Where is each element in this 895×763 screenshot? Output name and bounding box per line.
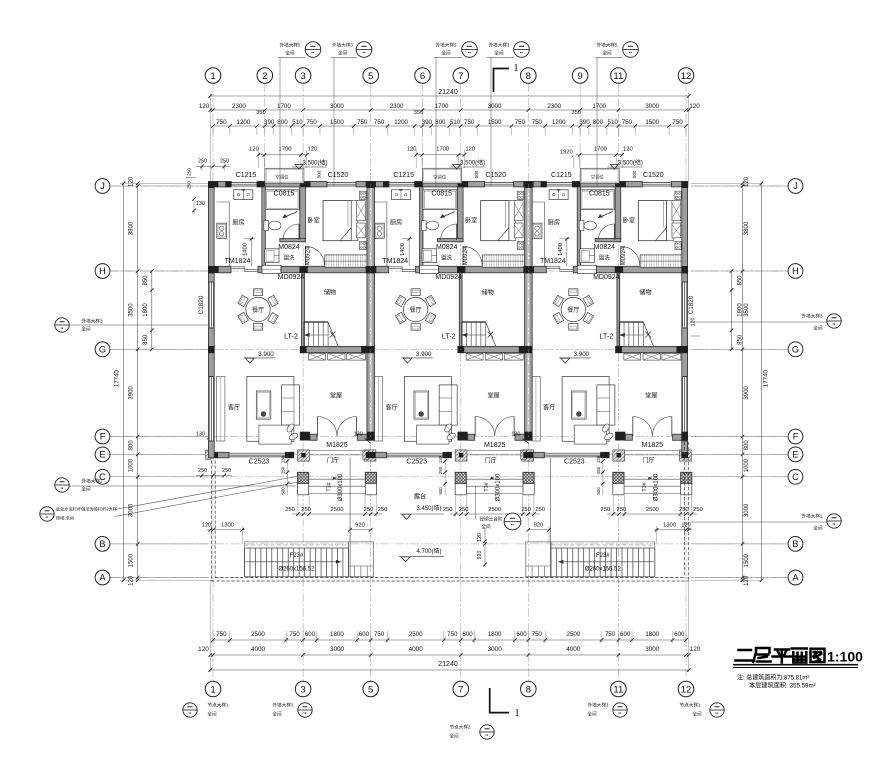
svg-text:盥洗: 盥洗 — [284, 254, 295, 262]
svg-text:外墙大样3: 外墙大样3 — [273, 702, 294, 709]
dims 250 250 below E wall — [196, 475, 232, 477]
svg-text:1: 1 — [210, 71, 215, 82]
porch column left — [298, 472, 309, 483]
svg-text:1000: 1000 — [129, 458, 135, 472]
balcony rail X-strip — [309, 353, 326, 360]
svg-text:外墙大样5: 外墙大样5 — [280, 42, 301, 49]
svg-text:C2523: C2523 — [249, 458, 270, 465]
bath lower divider wall — [280, 239, 306, 242]
dim 920 mid — [528, 529, 549, 531]
svg-text:850: 850 — [143, 275, 149, 286]
svg-text:2500: 2500 — [409, 631, 423, 638]
toilet — [264, 221, 269, 231]
svg-text:全间: 全间 — [81, 486, 91, 493]
svg-text:21240: 21240 — [438, 661, 458, 668]
grid bubbles bottom — [205, 681, 221, 697]
svg-text:6: 6 — [420, 71, 425, 82]
svg-text:全间: 全间 — [692, 711, 702, 718]
svg-text:F23#: F23# — [596, 553, 610, 559]
terrace recess edge right — [550, 458, 552, 577]
porch slab lines — [309, 478, 366, 480]
svg-text:3: 3 — [300, 684, 305, 695]
slope arrow — [283, 212, 298, 219]
svg-text:12: 12 — [681, 71, 692, 82]
svg-text:8: 8 — [526, 684, 531, 695]
svg-text:MD0924: MD0924 — [278, 274, 305, 281]
svg-text:750: 750 — [622, 119, 633, 126]
svg-text:▪▪: ▪▪ — [833, 322, 836, 327]
svg-text:750: 750 — [374, 119, 385, 126]
svg-text:H: H — [99, 266, 106, 276]
G wall under stairs — [306, 346, 361, 352]
svg-text:全间: 全间 — [813, 525, 823, 532]
svg-text:外墙大样3: 外墙大样3 — [82, 318, 103, 325]
svg-text:节点大样1: 节点大样1 — [680, 702, 701, 709]
svg-text:外墙大样3: 外墙大样3 — [332, 42, 353, 49]
svg-text:堂屋: 堂屋 — [330, 392, 342, 400]
grid bubbles top — [205, 68, 221, 84]
svg-text:750: 750 — [357, 119, 368, 126]
level 3.500 — [295, 165, 303, 170]
svg-text:T3#: T3# — [327, 482, 333, 491]
svg-text:全间: 全间 — [494, 50, 504, 57]
svg-text:3000: 3000 — [645, 103, 659, 110]
svg-text:▪▪: ▪▪ — [312, 50, 315, 55]
svg-text:920: 920 — [534, 522, 544, 528]
svg-text:▪▪: ▪▪ — [629, 50, 632, 55]
kitchen sink — [234, 190, 253, 200]
sofa — [282, 385, 300, 425]
svg-text:3000: 3000 — [645, 646, 660, 653]
title underline double — [733, 664, 858, 666]
svg-text:130: 130 — [196, 432, 205, 438]
svg-text:全间: 全间 — [207, 711, 217, 718]
section marker 1 bottom — [490, 688, 509, 713]
svg-text:120: 120 — [744, 176, 750, 187]
svg-text:G: G — [99, 344, 106, 354]
porch side stub left — [298, 450, 310, 461]
svg-text:250: 250 — [198, 159, 207, 165]
svg-text:7: 7 — [458, 684, 463, 695]
svg-text:外墙大样3: 外墙大样3 — [802, 313, 823, 320]
section marker 1 top — [494, 69, 510, 93]
svg-text:▪▪: ▪▪ — [363, 50, 366, 55]
svg-text:120: 120 — [477, 533, 483, 542]
svg-text:门厅: 门厅 — [327, 457, 339, 465]
svg-text:本层建筑面积: 355.59m²: 本层建筑面积: 355.59m² — [749, 682, 816, 690]
wardrobe grille — [325, 255, 367, 267]
plant — [286, 423, 296, 434]
svg-text:▪▪: ▪▪ — [833, 522, 836, 527]
svg-text:露台: 露台 — [414, 493, 426, 501]
svg-text:▪▪: ▪▪ — [520, 50, 523, 55]
bathtub — [265, 190, 299, 210]
top wall with windows C1215 C1520 — [214, 182, 231, 187]
svg-text:1700: 1700 — [592, 103, 606, 110]
svg-text:1800: 1800 — [488, 631, 502, 638]
svg-text:800: 800 — [744, 440, 750, 451]
svg-text:1400: 1400 — [243, 243, 249, 256]
svg-text:11: 11 — [613, 71, 623, 82]
svg-text:920: 920 — [477, 551, 483, 560]
callout concrete steps leader — [475, 486, 477, 519]
AC platform box — [265, 168, 304, 183]
svg-text:1700: 1700 — [279, 147, 292, 153]
svg-text:130: 130 — [281, 455, 286, 463]
svg-text:3.900: 3.900 — [258, 351, 274, 358]
top dim row axis spacing — [210, 109, 688, 111]
right exterior wall — [682, 182, 688, 458]
svg-text:750: 750 — [289, 631, 300, 638]
svg-text:11: 11 — [613, 684, 623, 695]
svg-text:750: 750 — [532, 119, 543, 126]
svg-text:120: 120 — [308, 147, 318, 153]
svg-text:外墙大样5: 外墙大样5 — [436, 42, 457, 49]
dim 920 left — [350, 529, 371, 531]
svg-text:750: 750 — [447, 631, 458, 638]
porch side stub right — [364, 450, 376, 461]
svg-text:全间: 全间 — [813, 325, 823, 332]
svg-text:全间: 全间 — [449, 733, 459, 740]
svg-text:2500: 2500 — [251, 631, 265, 638]
kitchen stove — [217, 223, 227, 238]
svg-text:8: 8 — [526, 71, 531, 82]
svg-text:17740: 17740 — [763, 369, 770, 387]
svg-text:250: 250 — [378, 507, 388, 513]
svg-text:3000: 3000 — [330, 646, 345, 653]
washbasin — [265, 249, 280, 263]
wall kitchen/bath — [262, 187, 265, 266]
svg-text:3.450(结): 3.450(结) — [416, 504, 441, 512]
svg-text:厨房: 厨房 — [232, 219, 244, 227]
low table — [259, 425, 291, 444]
svg-text:3800: 3800 — [744, 221, 750, 235]
svg-text:5: 5 — [368, 684, 373, 695]
E wall with window C2523 — [205, 450, 211, 459]
grid horizontals — [110, 185, 788, 187]
svg-text:120: 120 — [249, 147, 259, 153]
wall bath/bedroom — [300, 187, 306, 242]
svg-text:9: 9 — [577, 71, 582, 82]
svg-text:600: 600 — [305, 631, 316, 638]
svg-text:17740: 17740 — [114, 369, 121, 387]
svg-text:3900: 3900 — [744, 386, 750, 400]
svg-text:3500: 3500 — [744, 303, 750, 317]
svg-text:7: 7 — [458, 71, 463, 82]
dim 120 1700 120 above AC recess — [259, 154, 307, 156]
svg-text:4000: 4000 — [251, 646, 266, 653]
svg-text:外墙大样1: 外墙大样1 — [802, 513, 823, 520]
H wall — [218, 266, 231, 273]
top overall dim 21240 — [210, 95, 688, 97]
svg-text:砖砌,全间: 砖砌,全间 — [56, 515, 74, 522]
svg-text:600: 600 — [674, 631, 685, 638]
left dim 17740 — [123, 183, 125, 580]
svg-text:1:100: 1:100 — [827, 649, 863, 665]
door M0924 arc — [304, 246, 306, 265]
svg-text:1500: 1500 — [744, 553, 750, 567]
callout right wall detail 3 lower — [827, 514, 841, 528]
svg-text:节点大样2: 节点大样2 — [450, 724, 471, 731]
svg-text:全间: 全间 — [285, 50, 295, 57]
svg-text:C1520: C1520 — [328, 172, 349, 179]
svg-text:2300: 2300 — [547, 103, 561, 110]
svg-text:A: A — [99, 573, 106, 583]
svg-text:510: 510 — [450, 119, 461, 126]
callout left wall detail 3 — [55, 318, 69, 332]
svg-text:▪▪: ▪▪ — [511, 522, 514, 527]
nightstand top — [360, 191, 366, 199]
bottom overall dim 21240 — [210, 669, 688, 671]
svg-text:1500: 1500 — [129, 553, 135, 567]
svg-text:1700: 1700 — [435, 103, 449, 110]
svg-text:客厅: 客厅 — [228, 404, 240, 412]
vertical dim 120 920 terrace — [484, 528, 486, 566]
bottom dim row detail — [213, 639, 686, 641]
svg-text:750: 750 — [532, 631, 543, 638]
svg-text:E: E — [99, 450, 105, 460]
svg-text:800: 800 — [277, 119, 288, 126]
svg-text:1700: 1700 — [277, 103, 291, 110]
wall dining-storage — [302, 273, 305, 347]
svg-text:1500: 1500 — [488, 119, 502, 126]
svg-text:500: 500 — [317, 170, 322, 178]
svg-text:▪▪: ▪▪ — [61, 326, 64, 331]
svg-text:750: 750 — [672, 119, 683, 126]
svg-text:C1820: C1820 — [688, 295, 695, 314]
svg-text:120: 120 — [202, 522, 211, 528]
svg-text:Ø300x100: Ø300x100 — [338, 473, 344, 501]
svg-text:外墙大样1: 外墙大样1 — [82, 478, 103, 485]
svg-text:B: B — [792, 539, 798, 549]
svg-text:TM1824: TM1824 — [225, 258, 251, 265]
svg-text:卧室: 卧室 — [307, 217, 319, 225]
svg-text:120: 120 — [129, 575, 135, 586]
svg-text:外墙大样5: 外墙大样5 — [597, 42, 618, 49]
svg-text:F23#: F23# — [290, 553, 304, 559]
terrace dashed parapet right — [687, 442, 689, 581]
svg-text:350: 350 — [414, 110, 424, 116]
svg-text:12: 12 — [681, 684, 692, 695]
party wall 1-2 — [367, 182, 375, 441]
dim 120 1300 left — [207, 529, 245, 531]
svg-text:3000: 3000 — [330, 103, 344, 110]
svg-text:全间: 全间 — [338, 50, 348, 57]
svg-text:▪▪: ▪▪ — [468, 50, 471, 55]
svg-text:3800: 3800 — [129, 221, 135, 235]
svg-text:250: 250 — [301, 507, 311, 513]
right dim 17740 — [761, 183, 763, 580]
svg-text:E: E — [792, 450, 798, 460]
stairs LT-2 — [304, 321, 328, 323]
svg-text:H: H — [792, 266, 799, 276]
svg-text:Ø260x156.52: Ø260x156.52 — [585, 567, 622, 573]
svg-text:1000: 1000 — [744, 458, 750, 472]
svg-text:1: 1 — [210, 684, 215, 695]
title characters 二层平面图 drawn as strokes — [736, 648, 825, 663]
svg-text:350: 350 — [256, 110, 266, 116]
svg-text:注: 总建筑面积为:875.81m²: 注: 总建筑面积为:875.81m² — [737, 674, 809, 682]
svg-text:全间: 全间 — [602, 50, 612, 57]
svg-text:750: 750 — [515, 119, 526, 126]
svg-text:3900: 3900 — [129, 386, 135, 400]
svg-text:节点大样1: 节点大样1 — [208, 702, 229, 709]
svg-text:5: 5 — [368, 71, 373, 82]
svg-text:4000: 4000 — [409, 646, 424, 653]
svg-text:1200: 1200 — [394, 119, 408, 126]
F wall — [300, 432, 310, 441]
svg-text:B: B — [99, 539, 105, 549]
svg-text:1300: 1300 — [663, 522, 676, 528]
svg-text:▪▪: ▪▪ — [716, 711, 719, 716]
svg-text:3500: 3500 — [129, 303, 135, 317]
svg-text:250: 250 — [187, 181, 193, 189]
svg-text:130: 130 — [196, 201, 205, 207]
living tall cabinet at west wall — [216, 377, 225, 442]
svg-text:2: 2 — [262, 71, 267, 82]
svg-text:3000: 3000 — [488, 103, 502, 110]
svg-text:C0815: C0815 — [274, 191, 295, 198]
svg-text:750: 750 — [605, 631, 616, 638]
svg-text:此处水泥栏杆做法为砖栏杆2大样: 此处水泥栏杆做法为砖栏杆2大样 — [56, 506, 117, 513]
dim 1300 120 right — [654, 529, 692, 531]
svg-text:▪▪: ▪▪ — [61, 486, 64, 491]
svg-text:120: 120 — [681, 522, 690, 528]
external stair F23# — [551, 548, 655, 577]
svg-text:全间: 全间 — [481, 523, 491, 530]
nightstand bottom — [360, 241, 366, 249]
svg-text:1200: 1200 — [237, 119, 251, 126]
svg-text:LT-2: LT-2 — [284, 332, 298, 341]
svg-text:390: 390 — [422, 119, 433, 126]
terrace dashed parapet left — [211, 461, 213, 582]
svg-text:3000: 3000 — [129, 503, 135, 517]
svg-text:3.500(结): 3.500(结) — [302, 158, 327, 166]
external stair F23# — [245, 548, 349, 577]
svg-text:Ø260x156.52: Ø260x156.52 — [278, 567, 315, 573]
svg-text:全间: 全间 — [587, 711, 597, 718]
svg-text:砼砌土台阶: 砼砌土台阶 — [480, 516, 503, 523]
svg-text:250: 250 — [187, 168, 193, 176]
svg-text:▪▪: ▪▪ — [304, 711, 307, 716]
porch dim 250 250 2500 250 250 — [292, 513, 382, 515]
svg-text:1920: 1920 — [560, 150, 573, 156]
svg-text:250: 250 — [281, 466, 286, 474]
svg-text:G: G — [792, 344, 799, 354]
svg-text:600: 600 — [359, 631, 370, 638]
svg-text:800: 800 — [129, 440, 135, 451]
callout bottom node1 left — [183, 703, 197, 717]
svg-text:120: 120 — [744, 575, 750, 586]
svg-text:M0924: M0924 — [306, 246, 312, 265]
svg-text:800: 800 — [593, 119, 604, 126]
svg-text:600: 600 — [620, 631, 631, 638]
grid bubbles right — [788, 179, 803, 194]
svg-text:510: 510 — [292, 119, 303, 126]
callout left parapet note — [40, 507, 54, 521]
svg-text:4.700(结): 4.700(结) — [416, 547, 441, 555]
svg-text:850: 850 — [143, 334, 149, 345]
svg-text:1200: 1200 — [552, 119, 566, 126]
svg-text:全间: 全间 — [272, 711, 282, 718]
porch column right — [365, 472, 376, 483]
bottom dim row 4000 3000 — [210, 654, 688, 656]
terrace recess edge left — [349, 458, 351, 577]
svg-text:1: 1 — [513, 62, 519, 74]
svg-text:J: J — [793, 181, 798, 191]
right sub dims 850 1800 850 — [731, 271, 733, 349]
svg-text:储物: 储物 — [324, 289, 336, 297]
svg-text:4000: 4000 — [566, 646, 581, 653]
TV cabinet — [256, 391, 271, 419]
svg-text:3: 3 — [300, 71, 305, 82]
callout right wall detail 3 upper — [827, 314, 841, 328]
svg-text:M1825: M1825 — [326, 442, 348, 449]
svg-text:▪▪: ▪▪ — [189, 711, 192, 716]
svg-text:21240: 21240 — [438, 89, 458, 96]
svg-text:120: 120 — [689, 103, 700, 110]
svg-text:A: A — [792, 573, 799, 583]
living room furniture group — [247, 377, 294, 442]
kitchen counter — [217, 202, 230, 266]
svg-text:1300: 1300 — [221, 522, 234, 528]
svg-text:750: 750 — [374, 631, 385, 638]
svg-text:250: 250 — [222, 468, 231, 474]
grid bubbles left — [95, 179, 110, 194]
svg-text:1800: 1800 — [143, 303, 149, 317]
svg-text:全间: 全间 — [81, 326, 91, 333]
svg-text:1500: 1500 — [330, 119, 344, 126]
svg-text:2500: 2500 — [567, 631, 581, 638]
svg-text:250: 250 — [285, 507, 295, 513]
svg-text:390: 390 — [264, 119, 275, 126]
callout left wall detail 1 — [55, 478, 69, 492]
svg-text:120: 120 — [690, 646, 701, 653]
left exterior wall — [208, 182, 214, 458]
svg-text:▪▪: ▪▪ — [619, 711, 622, 716]
svg-text:外墙大样3: 外墙大样3 — [588, 702, 609, 709]
party wall 2-3 — [525, 182, 533, 441]
svg-text:750: 750 — [216, 119, 227, 126]
svg-text:120: 120 — [199, 103, 210, 110]
svg-text:外墙大样3: 外墙大样3 — [489, 42, 510, 49]
left sub dims 850 1800 850 — [151, 271, 153, 349]
right dim axis spacing — [742, 183, 744, 580]
svg-text:3000: 3000 — [488, 646, 503, 653]
svg-text:2300: 2300 — [390, 103, 404, 110]
svg-text:1800: 1800 — [330, 631, 344, 638]
svg-text:600: 600 — [462, 631, 473, 638]
svg-text:920: 920 — [355, 522, 365, 528]
svg-text:390: 390 — [579, 119, 590, 126]
svg-text:F: F — [100, 432, 106, 442]
svg-text:C1820: C1820 — [198, 295, 205, 314]
dim 1400 vertical — [251, 239, 253, 266]
svg-text:全间: 全间 — [441, 50, 451, 57]
svg-text:120: 120 — [198, 646, 209, 653]
dims 250 250 at grid1 top — [196, 166, 230, 168]
svg-text:▪▪: ▪▪ — [486, 733, 489, 738]
unit copies — [354, 147, 545, 517]
svg-text:750: 750 — [464, 119, 475, 126]
unit3 dim label 1920 overlay — [557, 147, 577, 156]
svg-text:750: 750 — [306, 119, 317, 126]
svg-text:3000: 3000 — [744, 503, 750, 517]
svg-text:1500: 1500 — [645, 119, 659, 126]
svg-text:2300: 2300 — [232, 103, 246, 110]
bed — [323, 201, 351, 241]
svg-text:250: 250 — [220, 159, 229, 165]
